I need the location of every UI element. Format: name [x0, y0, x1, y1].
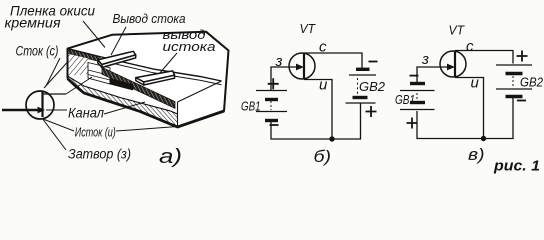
svg-text:истока: истока [163, 39, 216, 54]
svg-text:Сток (с): Сток (с) [16, 44, 59, 59]
svg-text:Вывод стока: Вывод стока [113, 12, 186, 26]
svg-text:и: и [319, 77, 328, 94]
svg-text:VT: VT [300, 21, 316, 36]
svg-text:а): а) [159, 146, 182, 168]
svg-text:Затвор (з): Затвор (з) [68, 147, 131, 162]
svg-text:GB1: GB1 [241, 99, 261, 114]
svg-text:б): б) [314, 147, 332, 166]
svg-text:в): в) [468, 145, 485, 164]
svg-text:рис. 1: рис. 1 [493, 158, 540, 175]
svg-text:кремния: кремния [5, 15, 62, 31]
svg-text:Исток (и): Исток (и) [75, 126, 116, 140]
svg-text:GB2: GB2 [359, 79, 386, 94]
svg-text:VT: VT [449, 23, 465, 38]
svg-text:GB2: GB2 [520, 75, 544, 90]
svg-text:з: з [421, 51, 429, 68]
svg-text:з: з [275, 53, 283, 70]
svg-text:GB1: GB1 [395, 92, 415, 107]
svg-text:Канал: Канал [68, 106, 104, 121]
svg-text:с: с [319, 39, 327, 56]
svg-text:и: и [471, 75, 480, 92]
svg-text:с: с [466, 38, 474, 55]
